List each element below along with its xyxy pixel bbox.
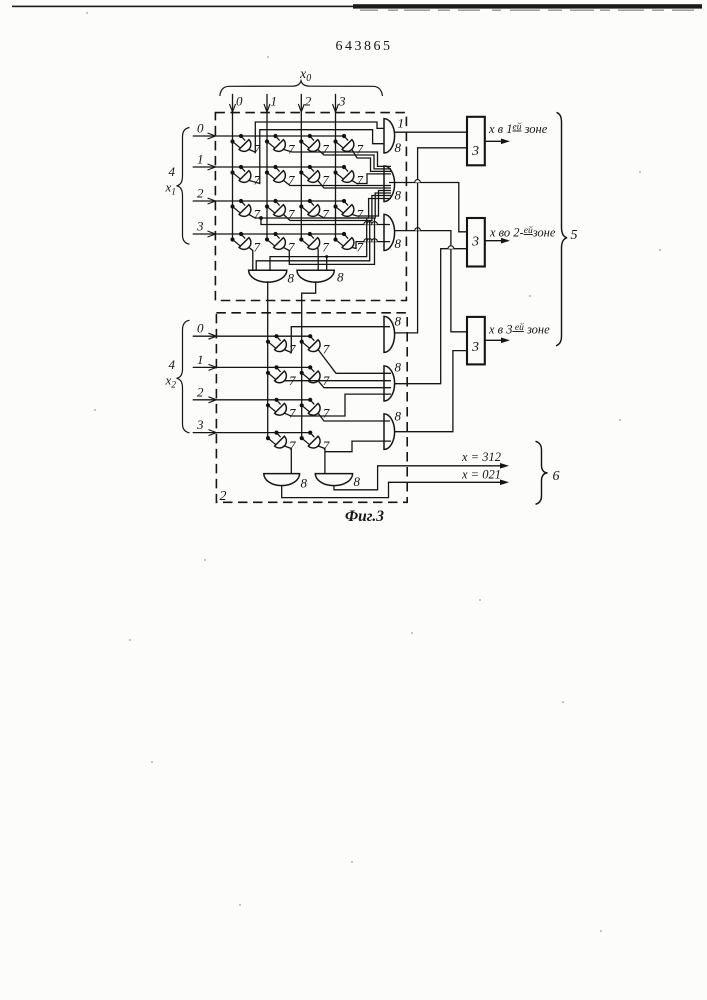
svg-text:x = 312: x = 312 [461, 450, 501, 464]
wire gate U1-02 to comb line 2 of D2 [318, 149, 391, 169]
svg-text:2: 2 [197, 186, 204, 201]
svg-text:7: 7 [357, 207, 364, 222]
svg-text:4: 4 [169, 164, 176, 179]
wire gate U1-01 to comb line 1 of D2 [283, 149, 391, 166]
wire gate U1-23 to comb line 7 of D2 [352, 191, 391, 217]
OR gate 8 D8 (block2 bottom) [384, 414, 395, 450]
brace for x1 input group [177, 128, 190, 245]
AND gate 7 U1-20 [239, 205, 251, 217]
svg-text:7: 7 [289, 405, 296, 420]
wire gate U1-13 to comb line 4 of D2 [352, 174, 391, 184]
bus wire 2 above bottom OR gates [256, 221, 370, 271]
OR gate 8 D1 (top, to zone 1) [384, 119, 395, 153]
x2 row input 3 with arrow [193, 432, 311, 434]
svg-text:0: 0 [197, 121, 204, 136]
hop on D3 output over riser [415, 228, 421, 231]
AND gate 7 U1-03 [342, 140, 354, 152]
wire gate U2-10 to D7 comb line 2 [284, 380, 391, 382]
AND gate 7 U1-32 [308, 238, 320, 250]
wire gate U1-20 to comb line 10 of D2 [249, 199, 391, 219]
wire gate U2-31 down to D10 [318, 446, 325, 474]
svg-text:2: 2 [197, 384, 204, 399]
brace 5 for zone outputs [556, 113, 567, 346]
hops on D3 second input [364, 239, 370, 242]
AND gate 7 U1-11 [274, 171, 286, 183]
svg-text:7: 7 [289, 438, 296, 453]
x1 row input 2 with arrow [193, 200, 344, 202]
OR gate 8 D10 (block2 bottom-right) [315, 474, 352, 486]
block 1 dashed box [215, 113, 406, 301]
brace 6 for code outputs [536, 441, 548, 504]
svg-text:8: 8 [395, 360, 402, 375]
arrowhead x=312 output [500, 463, 509, 469]
svg-text:4: 4 [169, 357, 176, 372]
svg-text:x1: x1 [165, 180, 177, 198]
OR gate 8 D3 (bottom) [384, 214, 395, 250]
wire D2 output to decoder box V2 [389, 183, 467, 232]
svg-text:8: 8 [395, 314, 402, 329]
AND gate 7 U1-00 [239, 140, 251, 152]
x1 row input 1 with arrow [193, 166, 344, 168]
AND gate 7 U2-31 [308, 436, 320, 448]
OR gate 8 D9 (block2 bottom-left) [264, 474, 300, 486]
OR gate 8 D4 (bottom left) [249, 270, 287, 282]
svg-text:3: 3 [471, 144, 479, 159]
svg-text:x = 021: x = 021 [461, 468, 501, 482]
svg-text:3: 3 [196, 219, 204, 234]
input stubs and junction dots U1-12 [310, 167, 314, 172]
wire D1 output to decoder box V1 [395, 131, 467, 133]
svg-text:3: 3 [338, 94, 346, 109]
input stubs and junction dots U1-30 [241, 234, 245, 239]
OR gate 8 D7 (block2 middle) [384, 366, 395, 401]
AND gate 7 U1-12 [308, 171, 320, 183]
x2 row input 0 with arrow [193, 335, 311, 337]
svg-text:Фиг.3: Фиг.3 [345, 508, 384, 525]
svg-text:x во 2-ейзоне: x во 2-ейзоне [489, 225, 556, 240]
svg-text:7: 7 [322, 240, 329, 255]
svg-text:x в 1ей зоне: x в 1ей зоне [488, 122, 548, 137]
input stubs and junction dots U1-03 [344, 136, 348, 141]
svg-text:5: 5 [571, 228, 578, 243]
AND gate 7 U1-30 [239, 238, 251, 250]
AND gate 7 U1-31 [274, 238, 286, 250]
svg-text:7: 7 [288, 142, 295, 157]
input stubs and junction dots U1-31 [276, 234, 280, 239]
svg-text:0: 0 [236, 94, 243, 109]
input stubs and junction dots U1-00 [241, 136, 245, 141]
AND gate 7 U2-11 [308, 371, 320, 383]
svg-text:8: 8 [354, 474, 361, 489]
page top rule right part (thicker scan edge) [353, 4, 702, 8]
AND gate 7 U1-13 [342, 171, 354, 183]
svg-text:7: 7 [254, 207, 261, 222]
svg-text:x2: x2 [165, 373, 177, 391]
input stubs and junction dots U1-13 [344, 167, 348, 172]
svg-text:7: 7 [254, 240, 261, 255]
input stubs and junction dots U2-00 [277, 336, 281, 341]
wire long line to D3 first input [261, 218, 390, 225]
x0 column input 0 stub with arrow [232, 94, 234, 240]
AND gate 7 U1-33 [342, 238, 354, 250]
wire gate U2-00 to D6 input [284, 327, 390, 353]
svg-text:8: 8 [337, 270, 344, 285]
svg-text:7: 7 [289, 342, 296, 357]
AND gate 7 U2-10 [275, 371, 287, 383]
x2 row input 1 with arrow [193, 366, 311, 368]
svg-text:3: 3 [471, 235, 479, 250]
svg-text:7: 7 [323, 405, 330, 420]
svg-text:8: 8 [288, 271, 295, 286]
AND gate 7 U2-30 [275, 436, 287, 448]
brace for x2 input group [177, 320, 190, 433]
input stubs and junction dots U2-20 [277, 400, 281, 405]
input stubs and junction dots U1-02 [310, 136, 314, 141]
wire gate U2-11 to D7 comb line 3 [318, 381, 391, 388]
x0 column input 2 stub with arrow [300, 94, 302, 240]
AND gate 7 U2-21 [308, 403, 320, 415]
hop of D2 output wire over D6 riser [415, 180, 421, 183]
wire gate U2-30 down to D9 [284, 446, 291, 474]
overbrace for x0 inputs [220, 81, 383, 96]
svg-text:3: 3 [471, 340, 479, 355]
wire gate U1-00 to D2 top input (bus y=122) [249, 122, 384, 152]
AND gate 7 U1-23 [342, 205, 354, 217]
wire gate U1-32 down to D5 [317, 247, 320, 270]
wire gate U2-20 to D7 comb line 4 [284, 394, 391, 416]
x0 column input 3 stub with arrow [335, 94, 337, 240]
wire gate U1-33 to D3 second input [352, 242, 390, 249]
svg-text:7: 7 [323, 342, 330, 357]
wire gate U1-10 to D1 second input (bus y=129.7) [249, 130, 384, 184]
svg-text:8: 8 [395, 409, 402, 424]
hops on D3 first input [364, 222, 370, 225]
input stubs and junction dots U1-11 [276, 167, 280, 172]
wire gate U1-12 to comb line 6 of D2 [318, 180, 391, 188]
output arrow of V1 [485, 140, 503, 142]
x1 row input 0 with arrow [193, 135, 344, 137]
AND gate 7 U2-01 [308, 340, 320, 352]
input stubs and junction dots U1-10 [241, 167, 245, 172]
wire D4 output down into block 2 column 0 [267, 281, 269, 438]
hop on V2 second input over riser [448, 246, 454, 249]
OR gate 8 D2 (middle, wire comb) [384, 166, 395, 202]
wire gate U1-03 to comb line 3 of D2 [352, 149, 391, 171]
wire D9 output to x=021 line [282, 482, 500, 497]
svg-text:8: 8 [395, 188, 402, 203]
input stubs and junction dots U1-21 [276, 201, 280, 206]
input stubs and junction dots U2-11 [310, 367, 314, 372]
arrowhead x=021 output [500, 480, 509, 486]
scan dashes under top rule [360, 10, 378, 11]
wire gate U2-21 to D8 first input [318, 413, 390, 421]
x1 row input 3 with arrow [193, 233, 344, 235]
AND gate 7 U1-01 [274, 140, 286, 152]
decoder box 3 V3 [467, 317, 485, 365]
AND gate 7 U1-21 [274, 205, 286, 217]
input stubs and junction dots U1-23 [344, 201, 348, 206]
wire D5 output down into block 2 column 1 [302, 281, 316, 438]
AND gate 7 U1-10 [239, 171, 251, 183]
svg-text:8: 8 [395, 236, 402, 251]
AND gate 7 U2-20 [275, 403, 287, 415]
AND gate 7 U1-02 [308, 140, 320, 152]
input stubs and junction dots U1-32 [310, 234, 314, 239]
decoder box 3 V2 [467, 218, 485, 267]
x2 row input 2 with arrow [193, 399, 311, 401]
wire D3 output to decoder box V3 [395, 231, 467, 332]
svg-text:8: 8 [301, 476, 308, 491]
bus wire 3 from gate U1-31 [283, 218, 374, 264]
page top rule left part [12, 6, 357, 8]
input stubs and junction dots U2-31 [310, 433, 314, 438]
wire gate U1-21 to comb line 9 of D2 [283, 196, 391, 221]
wire D6 output up to decoder box V1 second input [395, 148, 467, 333]
wire gate U1-11 to comb line 5 of D2 [283, 180, 391, 185]
wire gate U1-30 down to D4 [249, 247, 253, 270]
AND gate 7 U1-22 [308, 205, 320, 217]
AND gate 7 U2-00 [275, 340, 287, 352]
input stubs and junction dots U2-30 [277, 433, 281, 438]
svg-text:7: 7 [357, 142, 364, 157]
svg-text:1: 1 [197, 352, 204, 367]
svg-text:7: 7 [322, 207, 329, 222]
wire D8 output up to decoder box V3 second input [395, 351, 467, 432]
block 2 dashed box [216, 313, 407, 503]
svg-text:2: 2 [220, 489, 227, 504]
input stubs and junction dots U1-01 [276, 136, 280, 141]
decoder box 3 V1 [467, 117, 485, 166]
bus wire 1 above bottom OR gates [270, 218, 367, 270]
OR gate 8 D6 (block2 top) [384, 316, 395, 352]
wire D10 output to x=312 line [334, 466, 500, 490]
svg-text:8: 8 [395, 140, 402, 155]
scan noise specks [86, 12, 88, 14]
svg-text:2: 2 [305, 94, 312, 109]
svg-text:6: 6 [553, 469, 560, 484]
input stubs and junction dots U1-33 [344, 234, 348, 239]
input stubs and junction dots U1-22 [310, 201, 314, 206]
svg-text:1: 1 [197, 152, 204, 167]
wire to D8 second input [325, 441, 391, 452]
svg-text:1: 1 [398, 116, 405, 131]
input stubs and junction dots U1-20 [241, 201, 245, 206]
output arrow of V3 [485, 339, 503, 341]
svg-text:1: 1 [271, 94, 278, 109]
input stubs and junction dots U2-21 [310, 400, 314, 405]
wire gate U1-22 to comb line 8 of D2 [318, 193, 391, 218]
svg-text:7: 7 [323, 438, 330, 453]
riser from bus 1 into D5 [326, 257, 328, 271]
svg-text:x в 3 ей зоне: x в 3 ей зоне [488, 322, 550, 337]
x0 column input 1 stub with arrow [266, 94, 268, 240]
svg-text:3: 3 [196, 417, 204, 432]
wire gate U2-01 to D7 comb line 1 [318, 350, 391, 374]
svg-text:643865: 643865 [336, 39, 393, 54]
input stubs and junction dots U2-10 [277, 367, 281, 372]
output arrow of V2 [485, 240, 503, 242]
svg-text:0: 0 [197, 321, 204, 336]
OR gate 8 D5 (bottom right) [297, 270, 334, 282]
input stubs and junction dots U2-01 [310, 336, 314, 341]
wire D7 output up to decoder box V2 second input [395, 249, 467, 384]
